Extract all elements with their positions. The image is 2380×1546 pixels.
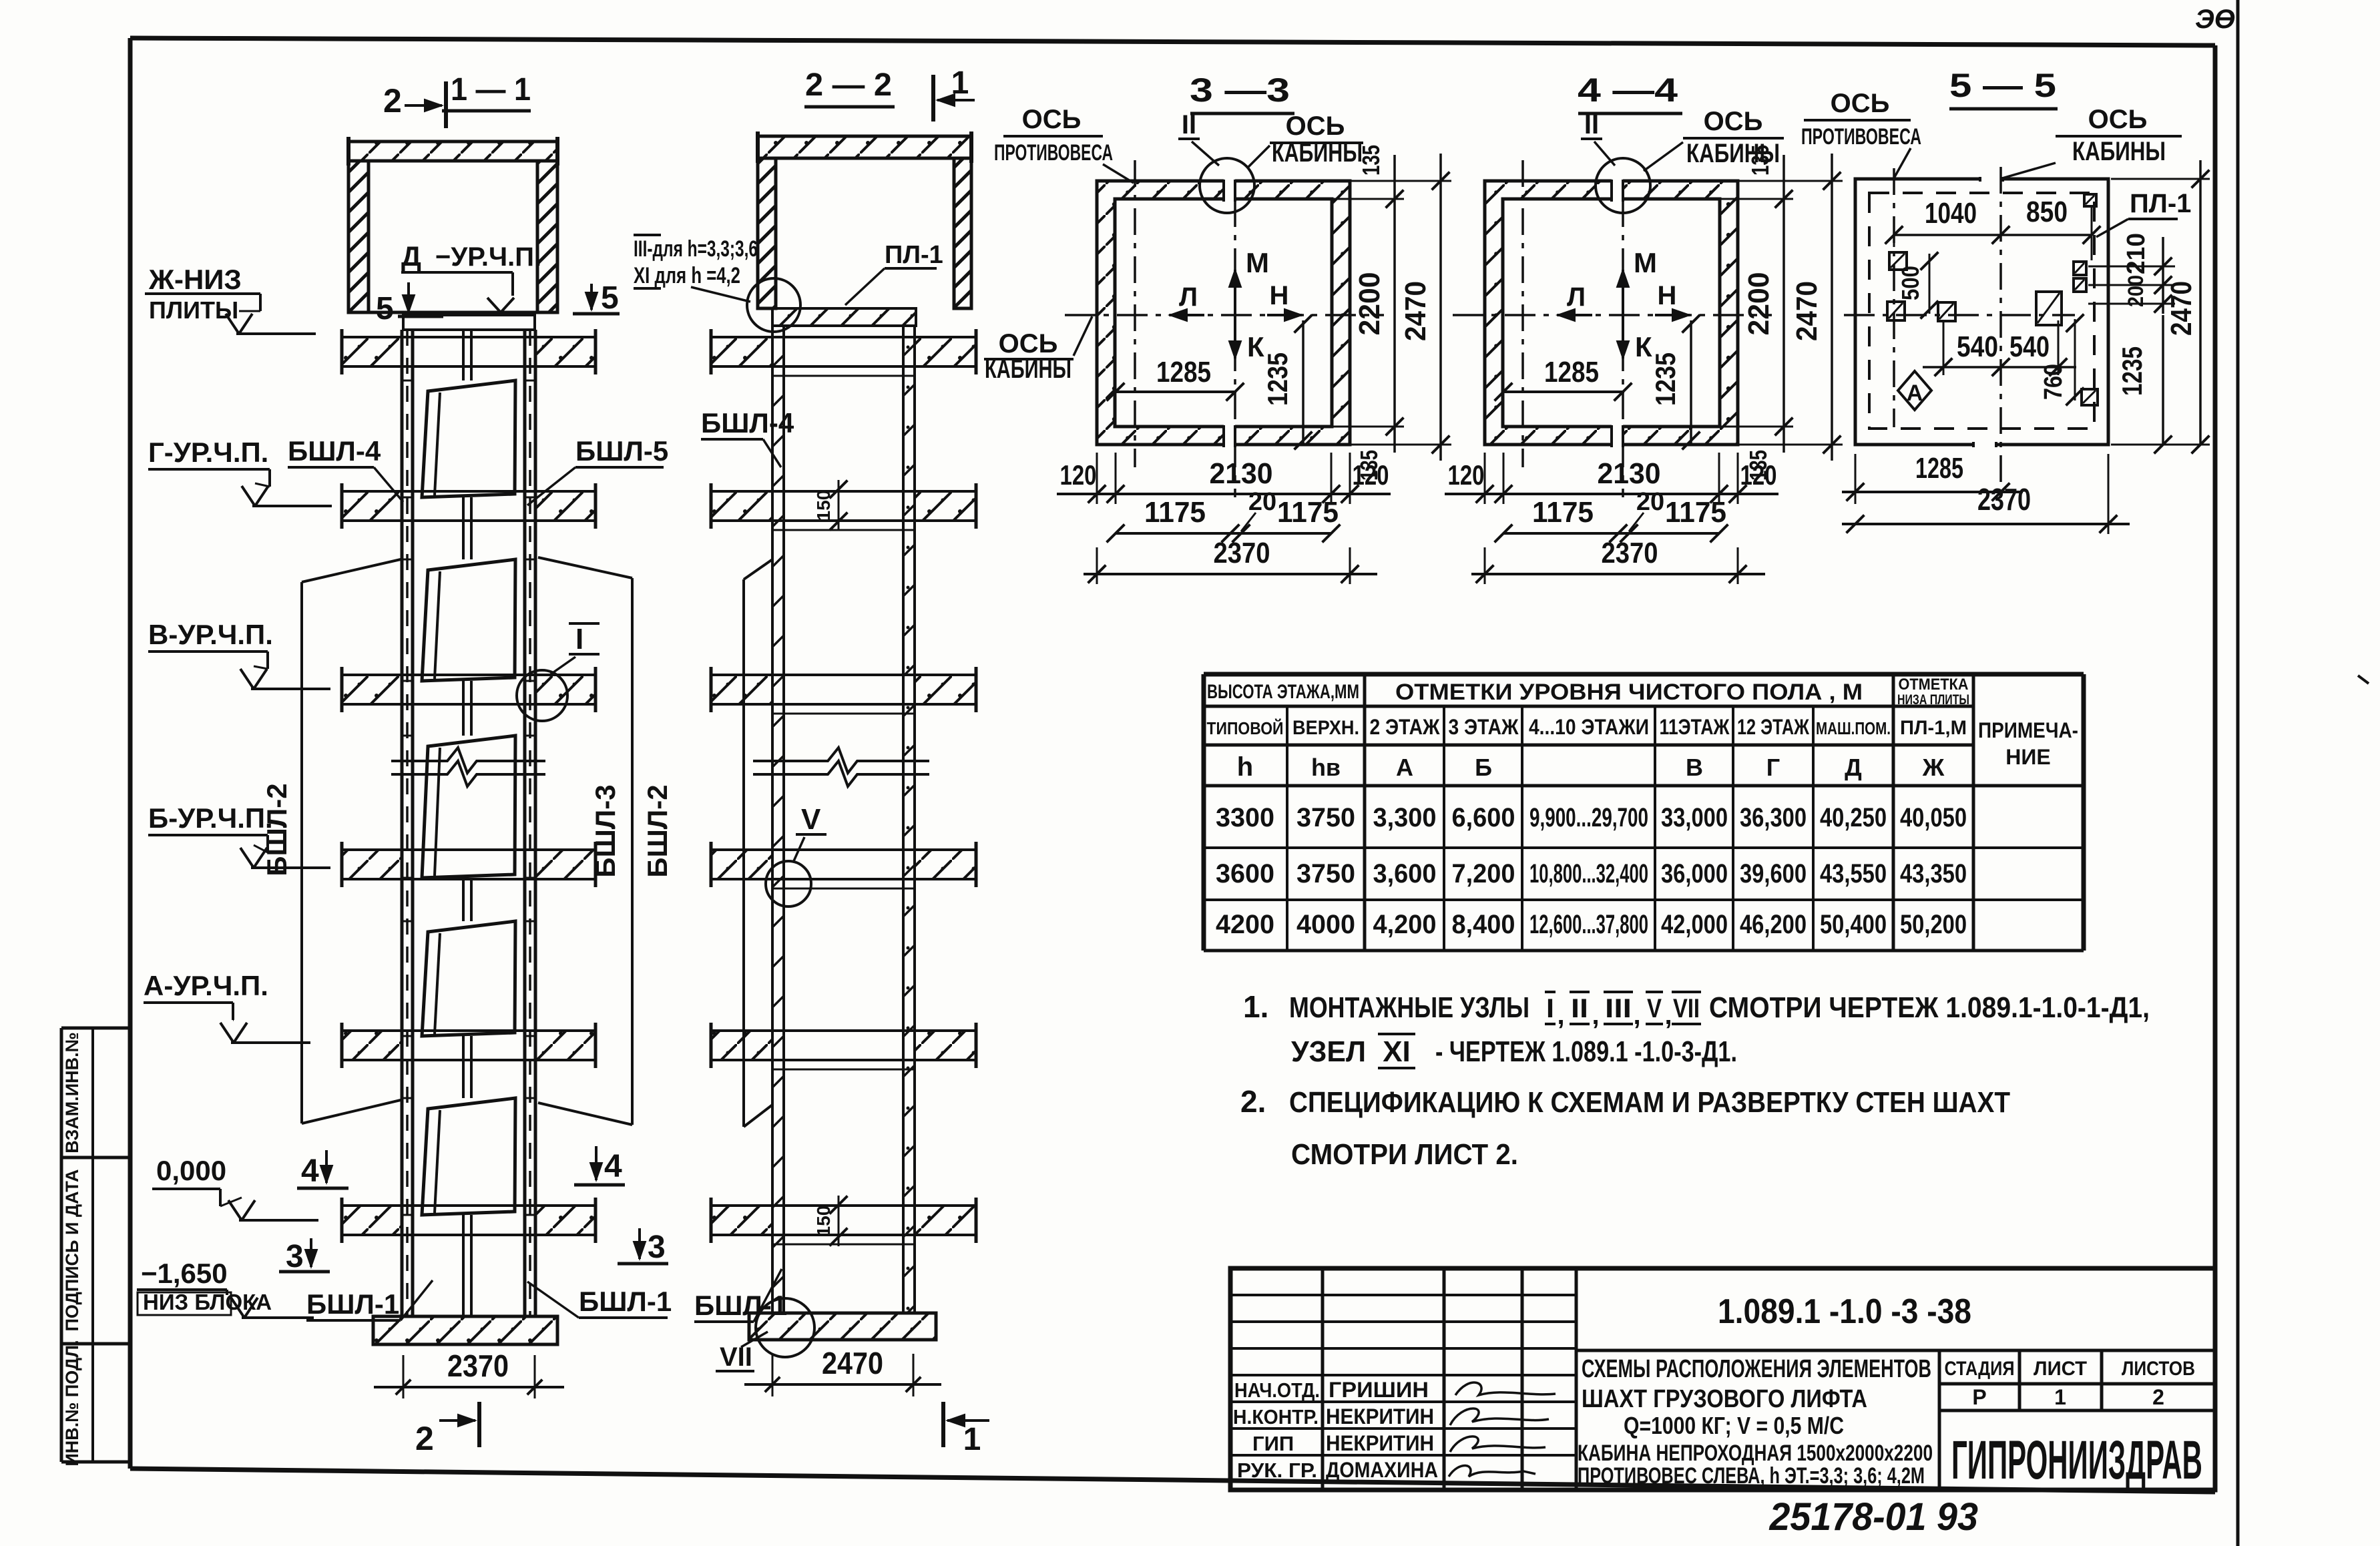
svg-text:ШАХТ ГРУЗОВОГО ЛИФТА: ШАХТ ГРУЗОВОГО ЛИФТА	[1582, 1385, 1867, 1413]
svg-text:А: А	[1396, 754, 1413, 781]
svg-text:ТИПОВОЙ: ТИПОВОЙ	[1207, 718, 1284, 738]
svg-text:8,400: 8,400	[1452, 910, 1515, 939]
svg-text:ОСЬ: ОСЬ	[2088, 105, 2148, 134]
svg-text:50,200: 50,200	[1900, 910, 1967, 939]
svg-text:1175: 1175	[1144, 496, 1206, 529]
svg-text:2370: 2370	[1977, 482, 2031, 517]
svg-text:93: 93	[1937, 1495, 1978, 1539]
svg-text:СМОТРИ ЛИСТ 2.: СМОТРИ ЛИСТ 2.	[1291, 1138, 1518, 1171]
svg-text:II: II	[1571, 994, 1588, 1023]
svg-text:СХЕМЫ РАСПОЛОЖЕНИЯ ЭЛЕМЕНТОВ: СХЕМЫ РАСПОЛОЖЕНИЯ ЭЛЕМЕНТОВ	[1582, 1355, 1931, 1383]
svg-text:540: 540	[1957, 330, 1998, 363]
svg-text:20: 20	[1636, 488, 1664, 516]
svg-text:,: ,	[1664, 1001, 1672, 1030]
svg-text:ЛИСТ: ЛИСТ	[2034, 1358, 2087, 1380]
svg-text:ПОДПИСЬ И ДАТА: ПОДПИСЬ И ДАТА	[62, 1169, 82, 1331]
svg-text:В-УР.Ч.П.: В-УР.Ч.П.	[148, 619, 273, 650]
svg-text:СМОТРИ ЧЕРТЕЖ 1.089.1-1.0-1-: СМОТРИ ЧЕРТЕЖ 1.089.1-1.0-1-Д1,	[1709, 991, 2150, 1024]
svg-text:Н: Н	[1658, 281, 1677, 310]
svg-text:3 —3: 3 —3	[1190, 71, 1290, 109]
svg-text:ЭƟ: ЭƟ	[2195, 5, 2235, 34]
svg-text:2370: 2370	[447, 1348, 509, 1383]
svg-text:Ж: Ж	[1922, 754, 1945, 781]
svg-text:Г: Г	[1766, 754, 1780, 781]
svg-text:−1,650: −1,650	[141, 1258, 228, 1289]
svg-text:3: 3	[286, 1239, 304, 1274]
svg-text:25178-01: 25178-01	[1769, 1495, 1927, 1539]
svg-text:36,000: 36,000	[1661, 859, 1728, 888]
svg-text:ОТМЕТКА: ОТМЕТКА	[1899, 676, 1969, 694]
svg-text:VII: VII	[720, 1342, 752, 1372]
svg-text:2: 2	[2152, 1385, 2164, 1409]
svg-text:2370: 2370	[1602, 537, 1658, 569]
svg-text:ИНВ.№ ПОДЛ.: ИНВ.№ ПОДЛ.	[62, 1340, 82, 1466]
svg-text:ЛИСТОВ: ЛИСТОВ	[2122, 1358, 2195, 1380]
svg-text:5 — 5: 5 — 5	[1949, 67, 2056, 104]
svg-text:ВЗАМ.ИНВ.№: ВЗАМ.ИНВ.№	[62, 1032, 82, 1153]
svg-text:Л: Л	[1567, 282, 1586, 312]
svg-text:Д: Д	[1845, 754, 1862, 781]
svg-text:1235: 1235	[1262, 352, 1293, 406]
svg-text:3: 3	[648, 1230, 666, 1265]
svg-text:- ЧЕРТЕЖ 1.089.1 -1.0-3-Д1.: - ЧЕРТЕЖ 1.089.1 -1.0-3-Д1.	[1435, 1035, 1737, 1068]
svg-text:4: 4	[604, 1149, 622, 1184]
svg-text:,: ,	[1557, 1001, 1564, 1030]
svg-text:2130: 2130	[1210, 457, 1273, 490]
svg-text:ПРОТИВОВЕСА: ПРОТИВОВЕСА	[1801, 124, 1921, 150]
svg-text:43,350: 43,350	[1900, 859, 1967, 888]
svg-text:120: 120	[1740, 459, 1777, 491]
svg-text:НИЕ: НИЕ	[2005, 745, 2050, 769]
svg-text:А-УР.Ч.П.: А-УР.Ч.П.	[144, 970, 268, 1001]
svg-text:20: 20	[1248, 488, 1276, 516]
svg-text:III: III	[1605, 994, 1632, 1023]
svg-text:2 ЭТАЖ: 2 ЭТАЖ	[1370, 715, 1441, 739]
svg-text:ПРОТИВОВЕС СЛЕВА, h ЭТ.=3,3; 3: ПРОТИВОВЕС СЛЕВА, h ЭТ.=3,3; 3,6; 4,2М	[1578, 1463, 1925, 1489]
svg-text:1.: 1.	[1243, 989, 1268, 1024]
svg-text:2.: 2.	[1240, 1084, 1266, 1119]
svg-text:III-для h=3,3;3,6: III-для h=3,3;3,6	[634, 236, 758, 262]
svg-text:М: М	[1634, 247, 1657, 278]
svg-text:НЕКРИТИН: НЕКРИТИН	[1326, 1431, 1434, 1455]
svg-text:5: 5	[376, 291, 394, 326]
svg-text:150: 150	[813, 490, 834, 521]
svg-text:1235: 1235	[1650, 352, 1681, 406]
svg-text:А: А	[1907, 380, 1923, 406]
svg-text:4 —4: 4 —4	[1578, 71, 1678, 109]
svg-text:Б: Б	[1475, 754, 1492, 781]
svg-text:hв: hв	[1311, 754, 1341, 781]
svg-text:Q=1000 КГ; V = 0,5 М/С: Q=1000 КГ; V = 0,5 М/С	[1624, 1412, 1844, 1439]
svg-text:I: I	[575, 623, 583, 656]
svg-text:−УР.Ч.П.: −УР.Ч.П.	[435, 242, 541, 272]
svg-text:3750: 3750	[1296, 859, 1355, 888]
svg-text:1040: 1040	[1925, 197, 1977, 230]
svg-text:0,000: 0,000	[156, 1155, 226, 1186]
svg-text:КАБИНА НЕПРОХОДНАЯ 1500х2000: КАБИНА НЕПРОХОДНАЯ 1500х2000х2200	[1578, 1441, 1933, 1466]
svg-text:4...10 ЭТАЖИ: 4...10 ЭТАЖИ	[1529, 715, 1649, 739]
svg-text:КАБИНЫ: КАБИНЫ	[1686, 139, 1780, 168]
svg-text:ДОМАХИНА: ДОМАХИНА	[1326, 1458, 1438, 1482]
svg-text:Д: Д	[401, 240, 421, 272]
svg-text:12 ЭТАЖ: 12 ЭТАЖ	[1737, 715, 1810, 739]
svg-text:,: ,	[1592, 1001, 1599, 1030]
svg-text:12,600...37,800: 12,600...37,800	[1529, 910, 1648, 939]
svg-text:46,200: 46,200	[1740, 910, 1807, 939]
svg-text:I: I	[1546, 994, 1554, 1023]
svg-text:МАШ.ПОМ.: МАШ.ПОМ.	[1816, 718, 1891, 738]
svg-text:120: 120	[1353, 459, 1389, 491]
svg-text:Л: Л	[1179, 282, 1198, 312]
svg-text:ПРОТИВОВЕСА: ПРОТИВОВЕСА	[994, 140, 1113, 166]
svg-text:НЕКРИТИН: НЕКРИТИН	[1326, 1404, 1434, 1429]
svg-text:50,400: 50,400	[1820, 910, 1887, 939]
svg-text:Б-УР.Ч.П.: Б-УР.Ч.П.	[148, 802, 273, 834]
svg-text:2: 2	[415, 1420, 434, 1457]
svg-text:1285: 1285	[1544, 356, 1599, 389]
svg-text:10,800...32,400: 10,800...32,400	[1529, 859, 1648, 888]
svg-text:11ЭТАЖ: 11ЭТАЖ	[1660, 715, 1730, 739]
svg-text:1235: 1235	[2116, 346, 2148, 396]
svg-text:1.089.1 -1.0 -3 -38: 1.089.1 -1.0 -3 -38	[1718, 1292, 1971, 1331]
svg-text:ПРИМЕЧА-: ПРИМЕЧА-	[1978, 718, 2078, 742]
svg-text:3,300: 3,300	[1373, 803, 1437, 832]
svg-text:33,000: 33,000	[1661, 803, 1728, 832]
svg-text:3,600: 3,600	[1373, 859, 1437, 888]
svg-text:КАБИНЫ: КАБИНЫ	[2072, 137, 2166, 166]
svg-text:МОНТАЖНЫЕ УЗЛЫ: МОНТАЖНЫЕ УЗЛЫ	[1289, 991, 1529, 1024]
svg-text:XI: XI	[1383, 1035, 1411, 1068]
svg-text:Н.КОНТР.: Н.КОНТР.	[1233, 1405, 1319, 1429]
svg-text:СТАДИЯ: СТАДИЯ	[1945, 1358, 2015, 1380]
svg-text:ПЛИТЫ: ПЛИТЫ	[149, 296, 238, 324]
svg-text:ГРИШИН: ГРИШИН	[1329, 1378, 1429, 1402]
svg-text:4: 4	[301, 1153, 319, 1189]
svg-text:В: В	[1686, 754, 1703, 781]
svg-text:2370: 2370	[1214, 537, 1270, 569]
svg-text:540: 540	[2009, 330, 2050, 363]
svg-text:500: 500	[1897, 266, 1924, 300]
svg-text:ОСЬ: ОСЬ	[1286, 111, 1345, 141]
svg-text:ПЛ-1: ПЛ-1	[885, 241, 943, 269]
svg-text:Ж-НИЗ: Ж-НИЗ	[148, 264, 242, 295]
svg-text:1: 1	[963, 1422, 981, 1457]
svg-text:ПЛ-1,М: ПЛ-1,М	[1900, 717, 1967, 739]
svg-text:9,900...29,700: 9,900...29,700	[1529, 803, 1648, 832]
svg-text:120: 120	[1448, 459, 1485, 491]
svg-text:4000: 4000	[1296, 910, 1355, 939]
svg-text:1285: 1285	[1915, 452, 1963, 485]
svg-text:1: 1	[2054, 1385, 2066, 1409]
svg-text:43,550: 43,550	[1820, 859, 1887, 888]
svg-text:V: V	[1647, 994, 1662, 1023]
svg-text:4200: 4200	[1216, 910, 1274, 939]
svg-text:850: 850	[2026, 196, 2068, 228]
svg-text:УЗЕЛ: УЗЕЛ	[1291, 1035, 1366, 1068]
svg-text:VII: VII	[1673, 994, 1700, 1023]
svg-text:200: 200	[2124, 275, 2148, 307]
svg-text:2200: 2200	[1353, 272, 1386, 336]
svg-text:3750: 3750	[1296, 803, 1355, 832]
svg-text:1175: 1175	[1532, 496, 1594, 529]
svg-text:V: V	[801, 803, 821, 836]
svg-text:2470: 2470	[2165, 281, 2198, 336]
svg-text:5: 5	[601, 280, 619, 316]
svg-text:3 ЭТАЖ: 3 ЭТАЖ	[1449, 715, 1519, 739]
svg-text:150: 150	[813, 1206, 834, 1237]
svg-text:40,050: 40,050	[1900, 803, 1967, 832]
svg-text:760: 760	[2040, 364, 2068, 400]
svg-text:РУК. ГР.: РУК. ГР.	[1237, 1459, 1317, 1482]
svg-text:БШЛ-3: БШЛ-3	[589, 784, 621, 877]
svg-text:НИЗ БЛОКА: НИЗ БЛОКА	[143, 1290, 272, 1314]
svg-text:39,600: 39,600	[1740, 859, 1807, 888]
svg-text:М: М	[1246, 247, 1269, 278]
svg-text:БШЛ-1: БШЛ-1	[694, 1290, 787, 1321]
svg-text:ОСЬ: ОСЬ	[1704, 107, 1763, 136]
svg-text:4,200: 4,200	[1373, 910, 1437, 939]
svg-text:40,250: 40,250	[1820, 803, 1887, 832]
svg-text:h: h	[1237, 752, 1253, 782]
svg-text:2470: 2470	[1791, 281, 1823, 341]
svg-text:БШЛ-4: БШЛ-4	[701, 407, 794, 439]
svg-text:ВЕРХН.: ВЕРХН.	[1292, 717, 1359, 739]
svg-text:НАЧ.ОТД.: НАЧ.ОТД.	[1234, 1378, 1320, 1402]
svg-text:Г-УР.Ч.П.: Г-УР.Ч.П.	[148, 437, 268, 468]
svg-text:БШЛ-5: БШЛ-5	[575, 435, 668, 467]
svg-text:36,300: 36,300	[1740, 803, 1807, 832]
svg-text:2 — 2: 2 — 2	[805, 67, 892, 103]
svg-text:Р: Р	[1972, 1385, 1986, 1409]
svg-text:120: 120	[1060, 459, 1097, 491]
svg-text:ОСЬ: ОСЬ	[1831, 89, 1890, 118]
svg-text:2: 2	[383, 82, 402, 119]
svg-text:ВЫСОТА ЭТАЖА,ММ: ВЫСОТА ЭТАЖА,ММ	[1207, 681, 1359, 703]
svg-text:1 — 1: 1 — 1	[451, 72, 531, 107]
svg-text:1175: 1175	[1277, 496, 1339, 529]
svg-text:135: 135	[1357, 145, 1385, 176]
svg-text:БШЛ-1: БШЛ-1	[306, 1288, 399, 1320]
svg-text:2470: 2470	[822, 1346, 883, 1380]
svg-text:XI для h =4,2: XI для h =4,2	[634, 263, 740, 288]
svg-text:2200: 2200	[1742, 272, 1775, 336]
svg-text:2470: 2470	[1399, 281, 1432, 341]
svg-text:1: 1	[951, 65, 969, 101]
svg-text:Н: Н	[1270, 281, 1289, 310]
svg-text:3300: 3300	[1216, 803, 1274, 832]
svg-text:2130: 2130	[1598, 457, 1661, 490]
svg-text:1285: 1285	[1156, 356, 1211, 389]
svg-text:,: ,	[1633, 1001, 1640, 1030]
svg-text:НИЗА ПЛИТЫ: НИЗА ПЛИТЫ	[1897, 692, 1969, 708]
svg-text:БШЛ-4: БШЛ-4	[288, 435, 381, 467]
svg-text:ОСЬ: ОСЬ	[1022, 105, 1082, 134]
svg-text:3600: 3600	[1216, 859, 1274, 888]
svg-text:1175: 1175	[1665, 496, 1726, 529]
svg-text:ПЛ-1: ПЛ-1	[2130, 189, 2191, 218]
svg-text:ГИПРОНИИЗДРАВ: ГИПРОНИИЗДРАВ	[1951, 1430, 2202, 1491]
svg-text:210: 210	[2122, 233, 2150, 274]
svg-text:ОТМЕТКИ УРОВНЯ ЧИСТОГО П: ОТМЕТКИ УРОВНЯ ЧИСТОГО ПОЛА , М	[1395, 680, 1863, 705]
svg-text:42,000: 42,000	[1661, 910, 1728, 939]
svg-text:БШЛ-2: БШЛ-2	[642, 784, 673, 877]
svg-text:7,200: 7,200	[1452, 859, 1515, 888]
svg-text:6,600: 6,600	[1452, 803, 1515, 832]
svg-text:СПЕЦИФИКАЦИЮ К СХЕМАМ И РАЗ: СПЕЦИФИКАЦИЮ К СХЕМАМ И РАЗВЕРТКУ СТЕН Ш…	[1289, 1086, 2010, 1119]
svg-text:ГИП: ГИП	[1252, 1432, 1294, 1455]
svg-text:БШЛ-1: БШЛ-1	[579, 1286, 672, 1317]
